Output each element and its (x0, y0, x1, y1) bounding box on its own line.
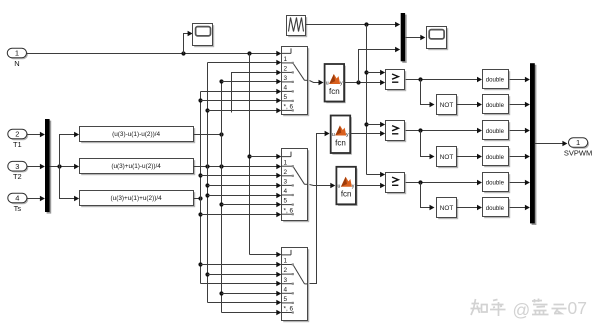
relational operator RelOp2 (>=) (386, 121, 407, 143)
wire branch to NOT3 (421, 183, 435, 211)
wire double2 to Mux3 (510, 102, 530, 107)
svg-text:NOT: NOT (440, 205, 454, 212)
wire SW1 output to fcn1 (310, 80, 324, 85)
wire Mux1 to Scope2 (406, 35, 426, 40)
wire SW2 output to fcn3 (310, 183, 336, 188)
wire T1 to Mux2 (27, 132, 45, 137)
data type conversion double4 (483, 147, 511, 168)
svg-text:y: y (340, 80, 343, 86)
wire V1 to SW1 port4 (201, 89, 282, 94)
svg-text:5: 5 (284, 296, 288, 303)
wire RelOp3 output to double5 (406, 180, 483, 185)
wire double3 to Mux3 (510, 128, 530, 133)
svg-text:5: 5 (284, 94, 288, 101)
svg-text:(u(3)+u(1)+u(2))/4: (u(3)+u(1)+u(2))/4 (111, 195, 163, 202)
svg-text:2: 2 (284, 267, 288, 274)
wire branch to Fcn3 (60, 167, 80, 202)
svg-text:1: 1 (576, 138, 580, 147)
mux Mux1 (top scope mux bar) (401, 13, 407, 63)
wire Fcn2 output row to Switch2 port1 (194, 164, 282, 169)
svg-text:u: u (332, 132, 335, 138)
MATLAB function block fcn1 (325, 64, 346, 103)
data type conversion double3 (483, 121, 511, 142)
watermark zhihu @lanyun07 (471, 299, 567, 317)
svg-text:fcn: fcn (329, 87, 340, 96)
wire Fcn3 output row (194, 196, 203, 200)
svg-text:1: 1 (15, 49, 19, 58)
svg-text:1: 1 (284, 258, 288, 265)
wire double6 to Mux3 (510, 205, 530, 210)
scope Scope2 (427, 27, 449, 51)
svg-text:NOT: NOT (440, 154, 454, 161)
wire Ts to Mux2 (27, 196, 45, 201)
svg-text:@: @ (513, 300, 531, 320)
mux Mux3 (output mux bar) (530, 63, 536, 225)
wire V1 to SW2 port2 (201, 173, 282, 178)
wire NOT3 output to double6 (457, 205, 483, 210)
logical operator NOT1 (437, 95, 459, 117)
svg-text:double: double (486, 180, 505, 187)
svg-text:(u(3)+u(1)-u(2))/4: (u(3)+u(1)-u(2))/4 (111, 163, 161, 170)
wire V3 to SW1 port3 (222, 79, 282, 84)
wire branch to Fcn1 (60, 132, 80, 167)
wire RelOp1 output to double1 (406, 77, 483, 82)
svg-text:u: u (338, 183, 341, 189)
wire NOT2 output to double4 (457, 154, 483, 159)
svg-text:4: 4 (284, 286, 288, 293)
svg-text:double: double (486, 154, 505, 161)
svg-text:2: 2 (284, 169, 288, 176)
inport 2 T1 (8, 129, 29, 149)
svg-text:*, 6: *, 6 (284, 306, 294, 313)
svg-text:4: 4 (284, 188, 288, 195)
wire double1 to Mux3 (510, 77, 530, 82)
wire V1 to SW3 port3 (201, 281, 282, 286)
svg-text:3: 3 (284, 277, 288, 284)
wire Mux2 output to Fcn blocks (50, 164, 80, 169)
svg-text:double: double (486, 76, 505, 83)
svg-text:3: 3 (284, 179, 288, 186)
wire V1 to SW3 port1 (201, 262, 282, 267)
wire V2 to SW3 port2 (208, 272, 282, 277)
svg-text:SVPWM: SVPWM (564, 149, 592, 158)
svg-text:3: 3 (284, 75, 288, 82)
svg-text:T1: T1 (13, 140, 22, 149)
wire SW3 output to fcn2 (310, 131, 330, 284)
svg-text:5: 5 (284, 198, 288, 205)
wire V2 to SW2 port4 (208, 193, 282, 198)
svg-text:4: 4 (15, 194, 19, 203)
wire RelOp2 output to double3 (406, 128, 483, 133)
svg-text:*, 6: *, 6 (284, 207, 294, 214)
repeating sequence (triangle wave source) (287, 16, 308, 38)
wire Mux3 to outport SVPWM (535, 141, 568, 146)
inport 4 Ts (8, 193, 29, 213)
svg-text:Ts: Ts (14, 204, 22, 213)
svg-text:y: y (346, 132, 349, 138)
wire T2 to Mux2 (27, 164, 45, 169)
MATLAB function block fcn2 (331, 116, 352, 155)
wire V6 to RelOp1 input1 (367, 70, 386, 75)
relational operator RelOp3 (>=) (386, 173, 407, 195)
wire V3 to SW3 port4 (222, 291, 282, 296)
wire bus line N select (247, 54, 251, 255)
relational operator RelOp1 (>=) (386, 70, 407, 92)
wire bus line V2 (205, 63, 209, 303)
wire Fcn1 output row (194, 132, 224, 136)
scope Scope1 (193, 24, 215, 48)
wire N to Multiport Switch 1 control (27, 51, 282, 56)
wire NOT1 output to double2 (457, 102, 483, 107)
wire bus line V1 (198, 92, 202, 284)
multiport switch SW2 (282, 149, 310, 223)
wire V1 to SW1 port5 (201, 98, 282, 103)
logical operator NOT2 (437, 147, 459, 169)
wire branch to NOT2 (421, 131, 435, 160)
wire V3 to SW3 port6 (222, 310, 282, 315)
wire triangle wave bus V6 (364, 25, 368, 175)
data type conversion double6 (483, 198, 511, 219)
svg-text:T2: T2 (13, 172, 22, 181)
data type conversion double1 (483, 70, 511, 91)
svg-text:*, 6: *, 6 (284, 104, 294, 111)
svg-text:1: 1 (284, 159, 288, 166)
svg-text:y: y (352, 183, 355, 189)
wire V2 to SW1 port1 (208, 60, 282, 65)
svg-text:fcn: fcn (335, 138, 346, 147)
outport 1 SVPWM (564, 138, 592, 158)
wire V2 to SW1 port6 (208, 108, 282, 113)
wire N to SW3 control (250, 252, 282, 257)
MATLAB function block fcn3 (336, 167, 357, 206)
svg-text:2: 2 (284, 66, 288, 73)
mux Mux2 (left input mux bar) (45, 119, 51, 214)
fcn block Fcn2 (u(3)+u(1)-u(2))/4 (80, 159, 196, 176)
svg-text:N: N (14, 59, 19, 68)
logical operator NOT3 (437, 198, 459, 220)
svg-text:double: double (486, 205, 505, 212)
inport 1 N (7, 48, 28, 68)
wire branch fcn1 to Mux1 input 2 (359, 47, 401, 83)
multiport switch SW1 (282, 47, 310, 117)
wire branch to Scope1 (184, 31, 193, 54)
wire bus line V3 (219, 79, 223, 312)
fcn block Fcn3 (u(3)+u(1)+u(2))/4 (80, 191, 196, 208)
wire V6 to RelOp3 input1 (367, 172, 386, 177)
svg-text:07: 07 (568, 298, 587, 318)
wire triangle wave to Mux1 input 1 (306, 22, 401, 27)
wire V1 to SW2 port6 (201, 212, 282, 217)
wire fcn2 output to RelOp2 (351, 131, 386, 136)
svg-text:u: u (326, 80, 329, 86)
data type conversion double5 (483, 173, 511, 194)
multiport switch SW3 (282, 248, 310, 323)
wire N to SW2 control (250, 154, 282, 159)
wire branch to NOT1 (421, 80, 435, 108)
wire bus line V4 to SW1 port2 (232, 70, 282, 113)
svg-text:2: 2 (15, 130, 19, 139)
svg-text:4: 4 (284, 85, 288, 92)
wire V2 to SW3 port5 (208, 300, 282, 305)
svg-text:fcn: fcn (341, 190, 352, 199)
data type conversion double2 (483, 95, 511, 116)
wire fcn1 output to RelOp1 (345, 80, 386, 85)
wire V2 to SW2 port3 (208, 183, 282, 188)
wire double5 to Mux3 (510, 180, 530, 185)
svg-text:(u(3)-u(1)-u(2))/4: (u(3)-u(1)-u(2))/4 (112, 131, 160, 138)
wire fcn3 output to RelOp3 (356, 183, 386, 188)
inport 3 T2 (8, 161, 29, 181)
wire V6 to RelOp2 input1 (367, 122, 386, 127)
svg-text:double: double (486, 102, 505, 109)
wire V3 to SW2 port5 (222, 202, 282, 207)
svg-text:1: 1 (284, 56, 288, 63)
wire double4 to Mux3 (510, 154, 530, 159)
svg-text:double: double (486, 128, 505, 135)
fcn block Fcn1 (u(3)-u(1)-u(2))/4 (80, 127, 196, 144)
svg-text:NOT: NOT (440, 102, 454, 109)
svg-text:3: 3 (15, 162, 19, 171)
